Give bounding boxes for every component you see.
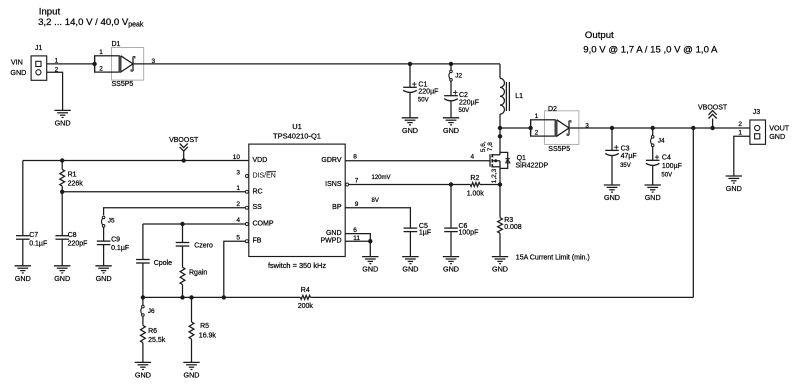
svg-text:50V: 50V — [661, 173, 672, 179]
svg-text:R2: R2 — [470, 175, 479, 182]
svg-text:1: 1 — [738, 130, 742, 137]
svg-text:DIS/EN: DIS/EN — [253, 173, 276, 180]
svg-text:1: 1 — [99, 49, 103, 56]
svg-text:Output: Output — [585, 30, 614, 41]
svg-text:25.5k: 25.5k — [148, 337, 166, 344]
svg-text:2: 2 — [236, 201, 240, 208]
svg-text:Cpole: Cpole — [154, 260, 172, 267]
svg-text:GND: GND — [604, 193, 620, 202]
svg-text:9,0 V @ 1,7 A / 15 ,0 V @ 1,0: 9,0 V @ 1,7 A / 15 ,0 V @ 1,0 A — [583, 44, 718, 55]
svg-text:16.9k: 16.9k — [199, 333, 217, 340]
svg-text:100pF: 100pF — [459, 230, 479, 237]
svg-text:120mV: 120mV — [372, 175, 391, 181]
svg-text:COMP: COMP — [253, 221, 274, 228]
svg-text:Rgain: Rgain — [189, 270, 207, 277]
svg-text:3: 3 — [236, 169, 240, 176]
svg-text:U1: U1 — [292, 122, 302, 131]
svg-text:35V: 35V — [620, 163, 631, 169]
svg-text:GDRV: GDRV — [321, 157, 341, 164]
svg-text:8V: 8V — [372, 198, 379, 204]
svg-text:1µF: 1µF — [419, 230, 431, 237]
svg-text:226k: 226k — [68, 180, 84, 187]
svg-text:5,6,: 5,6, — [480, 141, 487, 152]
svg-text:50V: 50V — [418, 98, 429, 104]
svg-text:1.00k: 1.00k — [467, 191, 485, 198]
svg-text:GND: GND — [10, 68, 26, 77]
svg-text:1: 1 — [55, 57, 59, 64]
svg-text:Input: Input — [39, 7, 61, 18]
svg-text:50V: 50V — [459, 108, 470, 114]
svg-text:R4: R4 — [301, 287, 310, 294]
svg-text:VBOOST: VBOOST — [698, 105, 728, 112]
svg-text:7: 7 — [355, 178, 359, 185]
svg-text:SiR422DP: SiR422DP — [516, 163, 549, 170]
svg-text:0.1µF: 0.1µF — [29, 240, 47, 247]
svg-text:GND: GND — [15, 274, 31, 283]
svg-text:J1: J1 — [35, 45, 43, 52]
svg-text:GND: GND — [769, 132, 785, 141]
svg-text:3,2 ... 14,0 V / 40,0 Vpeak: 3,2 ... 14,0 V / 40,0 Vpeak — [38, 17, 144, 29]
svg-text:C1: C1 — [418, 82, 427, 89]
svg-text:C8: C8 — [68, 232, 77, 239]
svg-text:C7: C7 — [29, 232, 38, 239]
svg-text:2: 2 — [55, 67, 59, 74]
svg-text:D2: D2 — [548, 106, 557, 113]
svg-text:4: 4 — [236, 217, 240, 224]
svg-text:GND: GND — [726, 184, 742, 193]
svg-text:GND: GND — [443, 126, 459, 135]
svg-text:0.1µF: 0.1µF — [111, 245, 129, 252]
svg-text:VIN: VIN — [11, 58, 23, 67]
svg-text:FB: FB — [253, 238, 262, 245]
svg-text:GND: GND — [55, 119, 71, 128]
svg-text:J5: J5 — [108, 218, 115, 225]
svg-text:220pF: 220pF — [68, 240, 88, 247]
svg-text:2: 2 — [535, 129, 539, 136]
svg-text:PWPD: PWPD — [321, 238, 342, 245]
svg-text:GND: GND — [135, 371, 151, 380]
svg-text:8: 8 — [353, 154, 357, 161]
svg-text:2: 2 — [738, 121, 742, 128]
svg-text:J6: J6 — [148, 308, 155, 315]
svg-text:SS5P5: SS5P5 — [112, 81, 134, 88]
svg-text:200k: 200k — [298, 303, 314, 310]
svg-text:RC: RC — [253, 188, 263, 195]
svg-text:47µF: 47µF — [621, 153, 637, 160]
svg-text:BP: BP — [332, 204, 342, 211]
svg-text:GND: GND — [184, 371, 200, 380]
svg-text:9: 9 — [355, 201, 359, 208]
svg-text:GND: GND — [54, 274, 70, 283]
svg-text:GND: GND — [645, 193, 661, 202]
svg-text:VBOOST: VBOOST — [169, 137, 199, 144]
svg-text:C3: C3 — [621, 145, 630, 152]
svg-text:C9: C9 — [111, 237, 120, 244]
svg-text:4: 4 — [471, 154, 475, 161]
svg-text:GND: GND — [402, 126, 418, 135]
svg-text:R6: R6 — [148, 328, 157, 335]
svg-text:J2: J2 — [455, 72, 462, 79]
svg-text:SS: SS — [253, 204, 263, 211]
svg-text:100µF: 100µF — [662, 163, 682, 170]
svg-text:TPS40210-Q1: TPS40210-Q1 — [273, 132, 321, 141]
svg-text:ISNS: ISNS — [325, 181, 342, 188]
svg-text:C2: C2 — [459, 92, 468, 99]
svg-text:VDD: VDD — [253, 157, 268, 164]
svg-text:6: 6 — [353, 227, 357, 234]
svg-text:3: 3 — [152, 58, 156, 65]
svg-text:220µF: 220µF — [418, 89, 438, 96]
svg-text:D1: D1 — [112, 41, 121, 48]
svg-text:5: 5 — [236, 234, 240, 241]
svg-text:1: 1 — [535, 113, 539, 120]
svg-text:7,8: 7,8 — [487, 142, 494, 151]
svg-text:R3: R3 — [504, 217, 513, 224]
svg-text:R1: R1 — [68, 171, 77, 178]
svg-text:GND: GND — [492, 265, 508, 274]
svg-text:Czero: Czero — [194, 242, 213, 249]
svg-text:15A Current Limit (min.): 15A Current Limit (min.) — [516, 254, 590, 261]
svg-text:3: 3 — [585, 123, 589, 130]
svg-text:GND: GND — [362, 265, 378, 274]
svg-text:Q1: Q1 — [517, 155, 526, 162]
svg-text:J4: J4 — [658, 138, 665, 145]
svg-text:C4: C4 — [662, 155, 671, 162]
svg-text:1: 1 — [236, 185, 240, 192]
svg-text:GND: GND — [96, 274, 112, 283]
svg-text:R5: R5 — [200, 323, 209, 330]
svg-text:GND: GND — [402, 265, 418, 274]
svg-text:1,2,3: 1,2,3 — [491, 168, 498, 183]
svg-text:SS5P5: SS5P5 — [548, 146, 570, 153]
svg-text:GND: GND — [326, 230, 342, 237]
svg-text:J3: J3 — [753, 109, 761, 116]
svg-text:L1: L1 — [515, 93, 523, 100]
svg-text:2: 2 — [99, 65, 103, 72]
svg-text:GND: GND — [443, 265, 459, 274]
svg-text:0.008: 0.008 — [504, 224, 522, 231]
svg-text:fswitch = 350 kHz: fswitch = 350 kHz — [268, 261, 326, 270]
svg-text:220µF: 220µF — [459, 100, 479, 107]
